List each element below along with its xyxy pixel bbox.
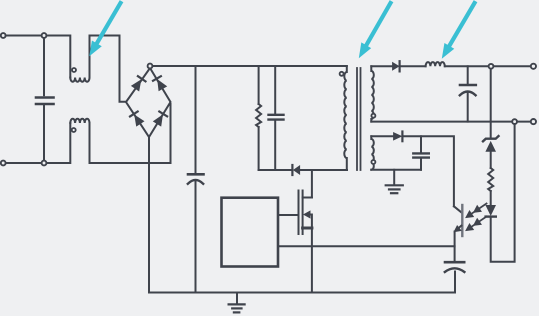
terminal AC neutral input: [1, 161, 6, 166]
bulk capacitor: [188, 66, 204, 293]
callout arrow common-mode choke: [90, 3, 121, 55]
mosfet Q1: [299, 191, 312, 235]
callout arrow output inductor: [443, 3, 475, 58]
wire LED cathode to output return: [491, 124, 515, 262]
auxiliary rectifier diode: [394, 132, 403, 142]
feedback filter capacitor: [445, 262, 465, 272]
transformer primary winding: [344, 66, 347, 170]
optocoupler LED: [486, 206, 496, 217]
wire: [490, 151, 492, 168]
wire source to ground rail: [311, 228, 313, 293]
controller IC box: [222, 198, 279, 267]
bridge diode lower-right: [154, 112, 167, 126]
bridge diode lower-left: [130, 112, 144, 126]
node X-cap bottom junction: [42, 161, 47, 166]
snubber capacitor: [269, 66, 284, 170]
wire output positive down to zener: [490, 69, 492, 137]
bridge rectifier diamond: [126, 68, 171, 137]
wire bridge negative to ground rail: [148, 137, 150, 293]
terminal AC line input: [1, 33, 6, 38]
transformer secondary winding: [371, 66, 374, 121]
optocoupler light arrows: [466, 204, 487, 231]
polarity dot transformer primary: [340, 72, 344, 76]
polarity dot auxiliary: [371, 160, 375, 164]
wire snubber bottom: [259, 169, 292, 171]
wire: [401, 65, 426, 67]
wire: [90, 36, 127, 102]
node X-cap top junction: [42, 33, 47, 38]
wire gate: [278, 214, 297, 216]
snubber clamp diode: [292, 165, 299, 175]
output capacitor: [460, 66, 476, 121]
polarity dot choke top: [72, 68, 76, 72]
bridge diode upper-right: [153, 76, 166, 90]
wire drain: [311, 170, 313, 198]
ground auxiliary: [386, 170, 403, 193]
ground primary: [229, 294, 245, 313]
common-mode choke top winding: [70, 78, 89, 82]
wire output positive rail: [445, 65, 531, 67]
transformer core: [357, 68, 361, 170]
wire auxiliary top: [371, 135, 393, 137]
zener diode: [483, 136, 499, 151]
snubber resistor: [256, 66, 261, 170]
common-mode choke bottom winding: [70, 119, 89, 123]
wire: [490, 191, 492, 206]
wire output return rail: [371, 121, 530, 123]
wire: [47, 123, 71, 163]
transformer auxiliary winding: [371, 136, 374, 170]
node output return junction: [512, 119, 517, 124]
wire: [47, 36, 71, 78]
bridge diode upper-left: [132, 76, 146, 90]
wire clamp to drain node: [300, 169, 347, 171]
wire: [90, 104, 171, 163]
terminal output return: [531, 119, 536, 124]
callout arrow transformer: [360, 3, 391, 57]
polarity dot secondary: [371, 114, 375, 118]
X-capacitor: [36, 38, 54, 160]
node output positive junction: [489, 64, 494, 69]
wire opto emitter to filter cap: [454, 246, 456, 261]
wire main DC rail: [153, 65, 347, 67]
wire: [6, 35, 42, 37]
wire primary ground rail: [149, 272, 455, 293]
node bridge positive output: [148, 64, 153, 69]
feedback resistor: [488, 168, 493, 191]
terminal output positive: [531, 64, 536, 69]
output filter inductor: [426, 62, 445, 66]
wire feedback from controller to opto emitter: [278, 245, 454, 247]
wire: [6, 162, 42, 164]
polarity dot choke bottom: [72, 128, 76, 132]
optocoupler phototransistor: [454, 205, 462, 246]
wire secondary top: [371, 65, 392, 67]
wire auxiliary bottom: [371, 169, 421, 171]
wire aux to opto collector: [403, 136, 454, 206]
output rectifier diode: [393, 61, 400, 71]
auxiliary capacitor: [413, 136, 429, 170]
